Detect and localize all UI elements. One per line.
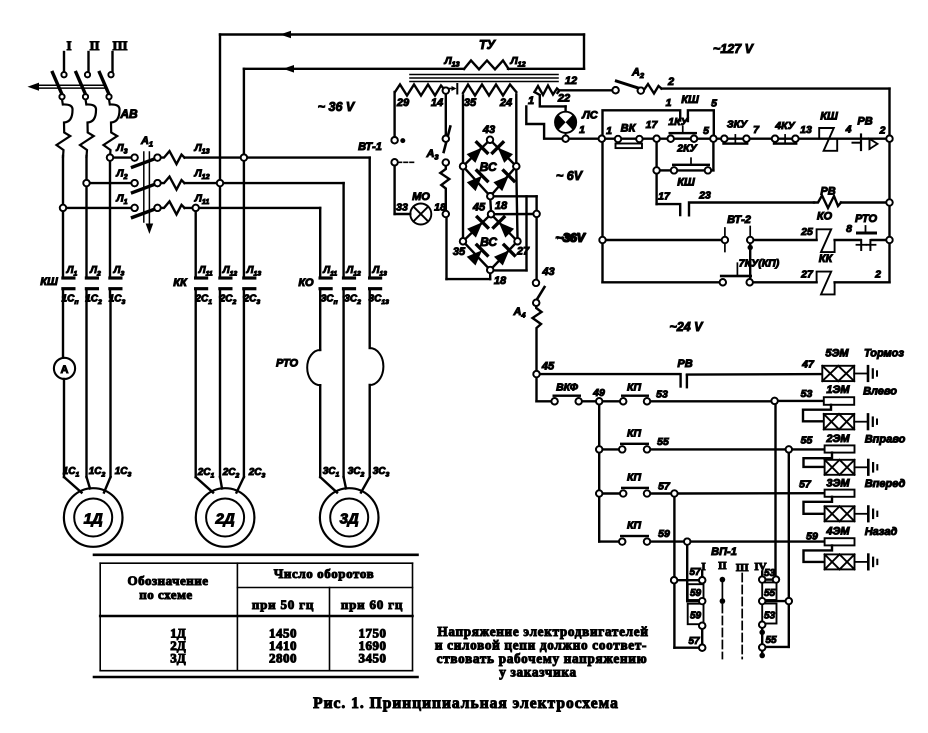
node 5 [703, 125, 717, 142]
right rail [888, 89, 890, 283]
label 1С3 [109, 294, 126, 307]
svg-text:57: 57 [688, 636, 700, 647]
node КО-РТО rail [886, 237, 892, 243]
transformer ТУ right edge [583, 35, 585, 69]
button КП 53 [602, 382, 668, 405]
svg-text:~36V: ~36V [557, 231, 586, 245]
coil КШ [819, 111, 838, 151]
switch А2 [612, 67, 644, 94]
node 1 [599, 125, 612, 142]
switch column II [720, 577, 726, 659]
svg-text:2ЭМ: 2ЭМ [825, 433, 850, 445]
wire motor 3 leads [320, 477, 370, 493]
label 27 (bridge) [516, 246, 530, 258]
wire to ТУ lower (Л13) with primary [244, 65, 584, 73]
node 45 [533, 361, 555, 378]
svg-text:III: III [736, 562, 749, 574]
electromagnet 4ЭМ Назад [804, 526, 898, 570]
svg-text:5ЭМ: 5ЭМ [825, 348, 849, 360]
wire КК feed 2 / vertical A from transformer [219, 35, 221, 277]
svg-text:25: 25 [800, 226, 813, 238]
svg-text:Число оборотов: Число оборотов [274, 566, 375, 581]
button 2КУ (NC) [653, 143, 713, 174]
svg-text:Тормоз: Тормоз [864, 348, 904, 360]
svg-text:КК: КК [173, 277, 188, 289]
node III phase input 3 [112, 38, 127, 72]
wire winding-1 path [526, 92, 565, 137]
label 35 (bridge) [453, 246, 466, 258]
svg-text:53: 53 [801, 388, 813, 400]
wire РВ to rail [841, 199, 893, 205]
label КК [173, 277, 188, 289]
secondary winding 35-24 [463, 85, 516, 110]
label 2С3 [243, 294, 261, 307]
transformer ТУ core [410, 75, 558, 82]
svg-text:3450: 3450 [359, 651, 387, 666]
svg-text:Рис. 1. Принципиальная элек: Рис. 1. Принципиальная электросхема [313, 695, 619, 712]
contactor КК main contact 3 [242, 276, 256, 297]
label Л12 КК [222, 265, 238, 278]
svg-text:55: 55 [657, 436, 669, 448]
motor 2Д [196, 488, 255, 547]
svg-text:24: 24 [499, 97, 512, 109]
contactor КШ main contact 3 [108, 276, 122, 297]
contactor КО main contact 2 [342, 276, 356, 297]
svg-text:~127 V: ~127 V [713, 42, 755, 56]
svg-text:1КУ: 1КУ [668, 116, 688, 128]
label 1С1 1С2 1С3 motor leads [63, 466, 132, 479]
svg-text:КШ: КШ [820, 111, 838, 123]
wire КК to rail [835, 269, 890, 283]
rectifier bridge ВС1 [460, 137, 520, 200]
svg-text:I: I [66, 38, 71, 53]
svg-text:II: II [89, 38, 99, 53]
label Л12 primary [509, 55, 525, 69]
svg-text:РТО: РТО [276, 358, 298, 370]
label 1Сп [62, 294, 80, 307]
node rail-2 right [886, 136, 892, 142]
flexible link (zigzag) row 3 [161, 201, 185, 214]
svg-text:КП: КП [627, 382, 641, 394]
wire Л11 drop to КО bank [319, 208, 321, 277]
wire to ТУ upper (Л12) [220, 31, 584, 39]
wire 7КУ row [603, 281, 720, 283]
ammeter А [54, 297, 75, 477]
svg-text:КШ: КШ [677, 177, 695, 189]
svg-text:29: 29 [396, 97, 410, 109]
node 18 lamp output [443, 211, 449, 217]
node Л2 junction [83, 180, 89, 186]
svg-text:при 50 гц: при 50 гц [252, 597, 314, 612]
caption [313, 695, 619, 712]
wire КК feed 3 / vertical B from transformer [243, 69, 245, 277]
wire ВС1 bottom to А4 drop [494, 196, 537, 210]
svg-text:2: 2 [874, 269, 881, 281]
wire ВС2 bottom right loop [494, 196, 527, 270]
node 36V [557, 231, 606, 245]
svg-text:8: 8 [846, 223, 852, 235]
svg-text:Вправо: Вправо [865, 434, 906, 446]
table rows [170, 626, 386, 641]
svg-text:57: 57 [658, 481, 671, 493]
label ~127V [713, 42, 755, 56]
label ТУ [479, 38, 497, 52]
label А1 [140, 135, 153, 149]
wire ВС1 bottom to ВС2 top [489, 200, 492, 212]
svg-text:7КУ(КП): 7КУ(КП) [739, 258, 780, 270]
flexible link (zigzag) row 1 [161, 151, 185, 164]
svg-text:27: 27 [516, 246, 530, 258]
wire 45 down [535, 377, 537, 401]
label 43 [482, 124, 495, 136]
label 1С2 [85, 294, 102, 307]
wire 2 to right rail [662, 87, 890, 89]
svg-text:ВТ-1: ВТ-1 [358, 141, 382, 153]
wire 7КУ to КК coil [753, 269, 817, 283]
zigzag under А3 [440, 166, 449, 212]
wire ВТ-2 down link [748, 243, 753, 279]
label Л13 primary [443, 55, 459, 69]
button ЗКУ (NO) [721, 119, 750, 145]
coil КО [817, 211, 835, 253]
svg-text:Назад: Назад [865, 526, 898, 538]
svg-text:12: 12 [565, 75, 577, 87]
svg-text:59: 59 [690, 588, 702, 599]
wire Л11 [185, 192, 321, 208]
svg-text:59: 59 [690, 611, 702, 622]
label КШ [40, 276, 58, 288]
label Л1 [66, 265, 78, 278]
svg-text:Вперед: Вперед [865, 478, 906, 490]
svg-text:23: 23 [698, 190, 711, 202]
secondary winding 1-22 [528, 86, 570, 108]
node ЛС bottom [562, 136, 568, 142]
button 1КУ (NC) [668, 116, 698, 142]
svg-text:1: 1 [579, 124, 585, 136]
svg-text:53: 53 [764, 611, 776, 622]
svg-text:3Д: 3Д [340, 511, 359, 528]
rectifier bridge ВС2 [460, 211, 521, 273]
svg-text:43: 43 [482, 124, 495, 136]
contactor А1 contact row 3 [131, 205, 160, 218]
label Л11 КО [322, 265, 337, 278]
svg-text:РТО: РТО [855, 213, 877, 225]
svg-text:АВ: АВ [119, 107, 138, 121]
svg-text:35: 35 [453, 246, 466, 258]
svg-text:ЛС: ЛС [581, 110, 599, 122]
svg-text:II: II [718, 560, 727, 572]
node II phase input 2 [89, 38, 100, 72]
svg-text:Обозначение: Обозначение [128, 573, 209, 588]
wire control rail 1 [544, 137, 889, 139]
secondary winding 29-14 [395, 85, 446, 110]
wire ВТ-1 to lamp МО [395, 165, 411, 214]
switch ВТ-1 [358, 137, 414, 166]
svg-text:ВС: ВС [480, 235, 497, 249]
flexible link (zigzag) row 2 [161, 177, 185, 190]
relay РВ (time) element [845, 116, 886, 151]
svg-text:57: 57 [799, 479, 812, 491]
svg-text:18: 18 [495, 200, 508, 212]
wire 53 rail [650, 388, 824, 404]
svg-text:55: 55 [764, 588, 776, 599]
lamp МО [396, 191, 446, 225]
wire node17 down [655, 142, 657, 167]
svg-text:22: 22 [557, 93, 570, 105]
svg-text:45: 45 [472, 202, 486, 214]
wire ВС2 bottom to lamp node [447, 217, 491, 279]
svg-text:по схеме: по схеме [139, 587, 192, 602]
svg-text:45: 45 [541, 361, 555, 373]
svg-text:13: 13 [800, 124, 812, 136]
svg-text:ТУ: ТУ [479, 38, 497, 52]
contactor КК main contact 2 [218, 276, 232, 297]
wire ВТ-2 to КО coil [753, 226, 816, 240]
wire 59-drop [687, 545, 699, 601]
wire 12 to А2 [558, 75, 613, 93]
wire 59 rail [650, 531, 825, 545]
svg-text:ЗКУ: ЗКУ [727, 119, 748, 131]
button КП 57 [596, 472, 671, 497]
wire 55-drop [765, 453, 792, 647]
node Л13 junction (vertical B) [241, 154, 247, 160]
svg-text:1: 1 [666, 97, 672, 109]
wire Л3 to contactor А1 [113, 142, 132, 158]
contactor КК main contact 1 [194, 276, 208, 297]
svg-text:17: 17 [658, 191, 671, 203]
label Л13 КК [246, 265, 262, 278]
label 18 (bridge bottom) [494, 275, 507, 287]
svg-text:43: 43 [541, 266, 554, 278]
svg-text:59: 59 [658, 528, 670, 540]
wire Л2 to contactor А1 [90, 168, 132, 184]
label ~36V (middle) [555, 231, 586, 245]
contactor КО main contact 3 [368, 276, 382, 297]
svg-text:14: 14 [431, 97, 443, 109]
label 3С2 [344, 294, 361, 307]
wire motor 1 leads [64, 297, 111, 493]
wire motor 2 leads [196, 297, 244, 493]
wire 57 rail [650, 479, 825, 497]
svg-text:РВ: РВ [677, 358, 692, 370]
node Л3 junction [107, 154, 113, 160]
thermal contact РТО [835, 213, 887, 250]
svg-text:53: 53 [656, 389, 668, 401]
svg-text:3ЭМ: 3ЭМ [826, 478, 850, 490]
label ~36V (left) [318, 100, 356, 114]
contact ВКФ [537, 382, 597, 405]
label АВ [119, 107, 138, 121]
circuit breaker АВ thermal element phase 2 [80, 99, 96, 157]
wire winding-29 left down to ВТ-1 [393, 92, 395, 137]
node Л1 junction [60, 205, 66, 211]
junction rings overlay [59, 72, 892, 651]
wire КК feed 1 [194, 211, 196, 277]
switch column IV [759, 568, 779, 658]
wire Л12 drop to КО bank [342, 183, 344, 276]
label 2С motor leads [197, 467, 266, 480]
lamp ЛС [555, 106, 599, 136]
wire riser node1 down [601, 142, 603, 282]
wire Л13 drop to КО bank [369, 158, 371, 277]
motor 1Д [64, 488, 123, 547]
contactor А1 contact row 1 [131, 154, 160, 167]
node 7 [753, 124, 760, 136]
motor 3Д [320, 488, 379, 547]
svg-text:3Д: 3Д [170, 651, 186, 666]
svg-text:1Д: 1Д [84, 511, 103, 528]
label Л2 [89, 265, 101, 278]
svg-text:у заказчика: у заказчика [499, 665, 577, 680]
label 45 [472, 202, 486, 214]
label Л3 [113, 265, 125, 278]
svg-text:2800: 2800 [269, 651, 297, 666]
svg-text:4ЭМ: 4ЭМ [825, 526, 850, 538]
coil КК [817, 253, 835, 294]
contact ВК [615, 123, 643, 149]
svg-text:35: 35 [464, 97, 477, 109]
node 49 [592, 387, 605, 404]
svg-text:КШ: КШ [681, 94, 699, 106]
svg-text:1ЭМ: 1ЭМ [826, 384, 850, 396]
wire Л12 [185, 168, 344, 184]
electromagnet 2ЭМ Вправо [804, 433, 906, 475]
wire Л13 [185, 142, 370, 158]
svg-text:~ 6V: ~ 6V [556, 169, 584, 183]
svg-text:47: 47 [801, 359, 815, 371]
wire winding-35 to bridges left [462, 96, 464, 239]
node on А4 drop [533, 211, 539, 217]
svg-text:КП: КП [627, 472, 641, 484]
label 3С13 [369, 294, 390, 307]
svg-text:~24 V: ~24 V [669, 320, 704, 334]
svg-text:2: 2 [667, 76, 674, 88]
switch block ВП-1 label [711, 546, 737, 558]
svg-text:55: 55 [765, 635, 777, 646]
label 2С1 [194, 294, 212, 307]
electromagnet 5ЭМ Тормоз [822, 348, 904, 382]
wire 57-drop [671, 497, 699, 648]
svg-text:ВП-1: ВП-1 [711, 546, 737, 558]
label Л12 КО [345, 265, 361, 278]
switch ВТ-2 [722, 214, 754, 252]
label 3Сп [321, 294, 339, 307]
svg-text:1: 1 [606, 125, 612, 137]
label 2С2 [219, 294, 237, 307]
svg-text:МО: МО [412, 191, 430, 203]
svg-text:59: 59 [806, 531, 818, 543]
wire ВС2 top to node [494, 213, 533, 216]
switch column I [688, 567, 706, 651]
electromagnet 1ЭМ Влево [803, 384, 897, 429]
wire phase 3 down to КШ bank [109, 156, 111, 277]
svg-text:III: III [112, 38, 127, 53]
circuit breaker АВ thermal element phase 1 [57, 99, 73, 157]
svg-text:Влево: Влево [863, 386, 897, 398]
label ~24V [669, 320, 704, 334]
svg-text:2КУ: 2КУ [676, 143, 697, 155]
label Л13 КО [371, 265, 387, 278]
zigzag under А4 [533, 306, 542, 371]
label 13 [800, 124, 812, 136]
node Л11 junction to КК [193, 205, 199, 211]
svg-text:17: 17 [646, 119, 659, 131]
circuit breaker АВ thermal element phase 3 [104, 99, 120, 157]
button 4КУ (NO) [772, 120, 799, 145]
button 7КУ(КП) [720, 258, 780, 286]
svg-text:1: 1 [528, 95, 534, 107]
switch column III [741, 574, 743, 659]
svg-text:5: 5 [711, 98, 717, 110]
mechanical link bar with arrow [28, 83, 105, 91]
switch А4 [512, 266, 554, 320]
svg-text:КК: КК [819, 253, 834, 265]
svg-text:РВ: РВ [820, 186, 835, 198]
node Л12 junction (vertical A) [217, 180, 223, 186]
svg-text:33: 33 [396, 202, 408, 214]
thermal relay РТО heaters [276, 297, 383, 477]
node I phase input 1 [64, 38, 72, 72]
label 3С motor leads [323, 466, 390, 479]
svg-text:27: 27 [800, 269, 814, 281]
svg-text:ВТ-2: ВТ-2 [727, 214, 751, 226]
wire phase 1 down to КШ bank [62, 156, 64, 277]
wire 55 rail [650, 435, 825, 453]
table header text [128, 566, 404, 612]
svg-text:ВС: ВС [480, 160, 497, 174]
electromagnet 3ЭМ Вперед [804, 478, 906, 522]
switch А3 [425, 127, 450, 166]
contact РВ (timed) [540, 358, 823, 387]
svg-text:КО: КО [817, 211, 833, 223]
switch blade phase 1 [53, 72, 67, 99]
svg-text:КП: КП [627, 428, 641, 440]
svg-text:КШ: КШ [40, 276, 58, 288]
wire 49 down [598, 404, 600, 541]
transformer ТУ primary winding [464, 61, 509, 70]
svg-text:5: 5 [703, 125, 709, 137]
button КП 55 [596, 428, 669, 453]
svg-text:при 60 гц: при 60 гц [341, 597, 403, 612]
svg-text:57: 57 [689, 567, 701, 578]
column headers I II III IV [701, 560, 766, 574]
label КО [298, 277, 314, 289]
svg-text:55: 55 [801, 435, 813, 447]
contact КШ aux 1-5 [603, 94, 718, 136]
contactor А1 mechanical link with arrow [144, 152, 153, 234]
svg-text:4: 4 [845, 124, 852, 136]
contactor А1 contact row 2 [131, 180, 160, 193]
wire Л1 to contactor А1 [66, 192, 132, 208]
contactor КШ main contact 1 [61, 276, 75, 297]
svg-text:ВК: ВК [621, 123, 637, 135]
wire winding-24 to bridges right [516, 95, 517, 239]
switch blade phase 3 [100, 72, 114, 99]
svg-text:~ 36 V: ~ 36 V [318, 100, 356, 114]
wire 53-drop [774, 404, 776, 577]
svg-text:4КУ: 4КУ [774, 120, 795, 132]
wire 36V row [606, 239, 722, 241]
svg-text:18: 18 [494, 275, 507, 287]
note text [435, 624, 649, 680]
resistor РВ zigzag [814, 186, 841, 209]
wire node5 down to 2КУ [712, 142, 714, 171]
switch blade phase 2 [76, 72, 90, 99]
button КП 59 [599, 520, 670, 545]
wire node down to А4 [535, 217, 537, 280]
wire winding-14 down to А3 [445, 94, 447, 136]
wire phase 2 down to КШ bank [85, 156, 87, 277]
